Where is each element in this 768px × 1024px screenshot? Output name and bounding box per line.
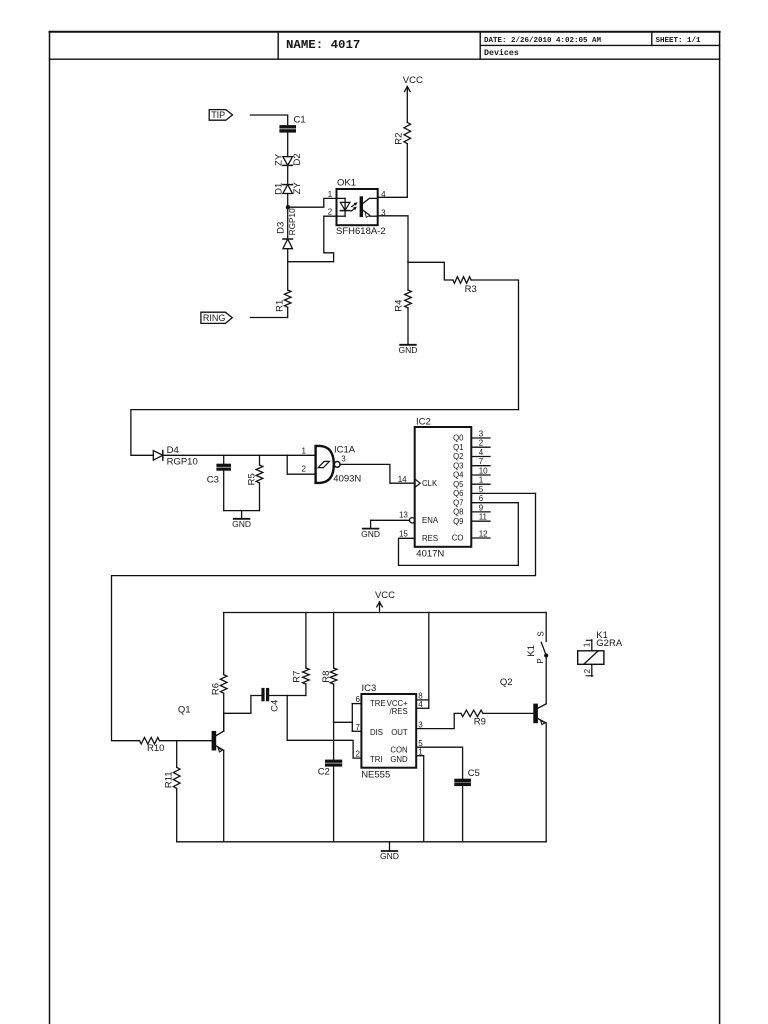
K1 coil pin 1	[591, 640, 593, 651]
svg-text:R2: R2	[394, 133, 405, 145]
power VCC bottom	[379, 602, 381, 613]
svg-text:SFH618A-2: SFH618A-2	[336, 226, 386, 237]
svg-text:S: S	[537, 631, 546, 636]
svg-text:P: P	[536, 658, 545, 663]
svg-text:R6: R6	[210, 683, 221, 695]
junction node D1-D3-OK1	[286, 205, 290, 209]
svg-text:TRE: TRE	[370, 699, 386, 708]
IC1A output bubble	[334, 462, 340, 468]
svg-text:CO: CO	[452, 534, 464, 543]
wire gate output to IC2 CLK	[340, 464, 415, 483]
IC1A hysteresis symbol	[318, 461, 329, 467]
svg-text:NE555: NE555	[361, 769, 390, 780]
wire D2 to D1	[287, 165, 289, 184]
nand gate IC1A 4093N	[316, 446, 334, 483]
svg-text:3: 3	[341, 455, 346, 464]
svg-text:Q5: Q5	[453, 480, 464, 489]
wire R1 to RING	[250, 307, 287, 317]
svg-text:GND: GND	[399, 345, 418, 355]
wire node to R4	[407, 262, 409, 290]
svg-text:2: 2	[583, 668, 592, 673]
svg-text:Q2: Q2	[500, 677, 513, 688]
diode D2 (zener ZY)	[283, 157, 293, 166]
svg-text:VCC: VCC	[375, 590, 395, 601]
wire Q2 collector to relay switch	[545, 658, 547, 704]
wire branch to gate pin 2	[287, 455, 315, 474]
K1 coil pin 2	[591, 664, 593, 676]
svg-text:TIP: TIP	[211, 110, 225, 120]
svg-text:10: 10	[479, 466, 488, 475]
wire Q1 collector	[223, 713, 225, 731]
svg-text:R7: R7	[292, 671, 303, 683]
svg-text:R9: R9	[474, 717, 486, 728]
svg-text:4093N: 4093N	[333, 474, 361, 485]
svg-text:R10: R10	[147, 743, 164, 754]
timer IC3 NE555 box	[361, 694, 416, 768]
OK1 internal phototransistor	[360, 197, 362, 217]
wire node to R3	[408, 262, 453, 280]
ground below R4	[407, 344, 409, 346]
resistor R10	[140, 737, 160, 744]
svg-text:RING: RING	[203, 313, 226, 323]
wire D1 to D3	[287, 194, 289, 240]
capacitor C5	[455, 779, 471, 782]
resistor R7	[303, 668, 310, 684]
svg-text:R5: R5	[246, 473, 257, 485]
svg-text:4017N: 4017N	[416, 549, 444, 560]
svg-text:Q4: Q4	[453, 471, 464, 480]
capacitor C4	[262, 688, 264, 700]
svg-text:DIS: DIS	[370, 728, 383, 737]
resistor R2	[404, 122, 411, 143]
svg-text:ZY: ZY	[292, 181, 303, 194]
svg-text:K1: K1	[526, 645, 537, 657]
wire C1 to D2	[287, 132, 289, 157]
ground symbol bottom	[389, 842, 391, 851]
svg-text:Q2: Q2	[453, 452, 463, 461]
capacitor C2	[326, 760, 342, 762]
wire Q1 emitter to rail	[223, 750, 225, 842]
wire Q7 to RES feedback	[399, 503, 519, 566]
diode D3 RGP10	[283, 239, 293, 249]
wire rail to R6	[223, 613, 225, 675]
svg-text:/RES: /RES	[389, 707, 407, 716]
transistor Q2	[534, 704, 538, 723]
svg-text:11: 11	[479, 513, 488, 522]
svg-text:15: 15	[399, 530, 408, 539]
svg-text:OK1: OK1	[337, 177, 356, 188]
resistor R8	[330, 668, 337, 684]
svg-text:C1: C1	[294, 114, 306, 125]
svg-text:RES: RES	[422, 534, 438, 543]
svg-text:Q7: Q7	[453, 498, 463, 507]
wire ENA to GND	[371, 519, 410, 521]
IC3 pin 8 stub	[416, 699, 429, 701]
svg-text:CLK: CLK	[422, 479, 438, 488]
svg-text:G2RA: G2RA	[596, 638, 623, 649]
svg-text:9: 9	[479, 503, 484, 512]
svg-text:2: 2	[479, 439, 484, 448]
wire branch to R11	[176, 741, 178, 768]
svg-text:C3: C3	[207, 475, 219, 486]
svg-text:7: 7	[479, 457, 484, 466]
svg-text:GND: GND	[380, 851, 399, 861]
wire R11 to ground rail	[176, 788, 178, 841]
svg-text:D2: D2	[292, 153, 303, 165]
svg-text:GND: GND	[232, 519, 251, 529]
svg-text:VCC: VCC	[403, 75, 423, 86]
wire D3 to R1	[287, 249, 289, 290]
resistor R3	[453, 277, 471, 284]
svg-text:1: 1	[328, 190, 333, 199]
svg-text:5: 5	[479, 485, 484, 494]
svg-text:4: 4	[418, 700, 423, 709]
IC3 pin 3 OUT wire	[416, 713, 461, 728]
svg-text:OUT: OUT	[391, 728, 408, 737]
counter IC2 4017N box	[415, 427, 472, 547]
relay K1 coil	[578, 651, 604, 665]
svg-text:TRI: TRI	[370, 755, 383, 764]
svg-text:4: 4	[479, 448, 484, 457]
resistor R5	[259, 455, 261, 465]
ground rail wire	[177, 841, 547, 843]
svg-text:CON: CON	[390, 746, 407, 755]
wire R7 to C4 node	[305, 684, 307, 696]
wire rail to R8	[333, 613, 335, 669]
connector TIP	[209, 110, 232, 121]
capacitor C3	[223, 455, 225, 464]
svg-text:1: 1	[418, 747, 423, 756]
connector RING	[201, 312, 232, 323]
diode D4 RGP10	[153, 451, 163, 461]
relay K1 switch	[545, 613, 547, 642]
wire C3-R5 bottom	[224, 510, 260, 512]
wire Q6 to bottom section R10	[112, 493, 536, 740]
svg-text:ZY: ZY	[274, 153, 285, 166]
svg-text:GND: GND	[361, 529, 380, 539]
IC3 pin 4 stub	[416, 707, 429, 709]
svg-text:RGP10: RGP10	[288, 208, 297, 235]
svg-text:D1: D1	[273, 183, 284, 195]
resistor R11	[173, 767, 180, 788]
svg-text:R3: R3	[465, 284, 477, 295]
wire C4 node to IC3 TRI	[287, 696, 361, 759]
svg-text:1: 1	[302, 446, 307, 455]
IC3 pin 7 stub	[352, 730, 361, 732]
power VCC top	[406, 87, 408, 123]
wire rail to R7	[305, 613, 307, 669]
wire R9 to Q2 base	[483, 712, 534, 714]
svg-text:DATE: 2/26/2010 4:02:05 AM: DATE: 2/26/2010 4:02:05 AM	[484, 37, 602, 45]
resistor R1	[284, 290, 291, 307]
svg-text:3: 3	[479, 429, 484, 438]
wire OK1 pin 4 to R2	[378, 196, 408, 198]
svg-text:6: 6	[479, 494, 484, 503]
optocoupler OK1 box	[337, 189, 378, 225]
svg-text:Devices: Devices	[484, 48, 519, 58]
svg-text:R4: R4	[394, 300, 405, 312]
wire OK1 pin 3 to R4/R3 node	[378, 216, 408, 262]
svg-text:C5: C5	[468, 768, 480, 779]
title block	[50, 32, 720, 59]
svg-text:C4: C4	[270, 700, 281, 712]
wire TIP to C1	[250, 115, 287, 126]
wire IC3 power to VCC rail	[428, 613, 430, 709]
svg-text:1: 1	[479, 476, 484, 485]
svg-text:IC2: IC2	[416, 417, 431, 428]
VCC rail wire	[224, 612, 547, 614]
IC3 pin 5 CON wire	[416, 747, 462, 779]
svg-text:13: 13	[399, 510, 408, 519]
OK1 light arrows	[351, 202, 357, 211]
wire R3 to mid-net	[471, 280, 518, 410]
svg-text:2: 2	[302, 465, 307, 474]
svg-text:12: 12	[479, 529, 488, 538]
svg-text:C2: C2	[318, 767, 330, 778]
wire R4 to GND	[407, 308, 409, 345]
svg-text:SHEET: 1/1: SHEET: 1/1	[656, 37, 702, 45]
svg-text:2: 2	[356, 750, 361, 759]
svg-text:NAME: 4017: NAME: 4017	[286, 38, 360, 52]
svg-text:RGP10: RGP10	[167, 457, 198, 468]
svg-text:2: 2	[328, 208, 333, 217]
wire OK1 pin 2 to D3 anode	[288, 216, 337, 262]
svg-text:Q9: Q9	[453, 517, 463, 526]
svg-text:14: 14	[398, 475, 407, 484]
svg-text:GND: GND	[390, 755, 408, 764]
svg-text:Q0: Q0	[453, 434, 464, 443]
wire R8 to C2	[333, 684, 335, 760]
IC3 pin 6 stub	[352, 703, 361, 705]
svg-text:Q3: Q3	[453, 461, 463, 470]
svg-text:D4: D4	[167, 445, 179, 456]
ground at IC2 ENA	[370, 520, 372, 528]
diode D1 (zener ZY)	[283, 185, 293, 194]
wire pin6-pin7 tie	[351, 704, 353, 732]
IC2 ENA input with bubble	[410, 518, 415, 523]
resistor R4	[405, 290, 412, 308]
wire R10 to Q1 base	[160, 740, 213, 742]
wire R6 to Q1 collector node	[223, 693, 225, 731]
svg-text:Q1: Q1	[178, 705, 191, 716]
resistor R6	[220, 675, 227, 694]
OK1 internal LED	[337, 198, 350, 216]
wire collector node to C4	[224, 696, 262, 714]
capacitor C1	[280, 126, 296, 128]
svg-text:ENA: ENA	[422, 516, 439, 525]
IC2 CLK input	[415, 479, 421, 488]
wire C4 to R7 node	[269, 695, 306, 697]
svg-text:Q1: Q1	[453, 443, 463, 452]
svg-text:Q6: Q6	[453, 489, 463, 498]
svg-text:R8: R8	[321, 671, 332, 683]
svg-text:3: 3	[418, 720, 423, 729]
wire R2 to OK1 pin 4	[406, 144, 408, 198]
wire R3 net to D4	[131, 410, 519, 456]
svg-text:1: 1	[583, 642, 592, 647]
svg-text:D3: D3	[276, 222, 287, 234]
svg-text:6: 6	[356, 695, 361, 704]
wire junction to OK1 pin 1	[288, 198, 337, 207]
svg-text:R1: R1	[274, 300, 285, 312]
transistor Q1	[212, 731, 216, 750]
wire Q2 emitter to ground rail	[545, 723, 547, 842]
svg-text:IC3: IC3	[362, 683, 377, 694]
wire D4 to gate input	[163, 454, 316, 456]
svg-text:Q8: Q8	[453, 508, 463, 517]
IC3 pin 1 GND wire	[416, 756, 424, 842]
resistor R9	[461, 710, 483, 717]
wire pin6/7 to R8/C2 node	[334, 721, 353, 723]
ground below C3/R5	[241, 511, 243, 519]
svg-text:R11: R11	[163, 771, 174, 788]
IC2 CO pin 12	[471, 537, 490, 539]
svg-text:7: 7	[356, 723, 361, 732]
